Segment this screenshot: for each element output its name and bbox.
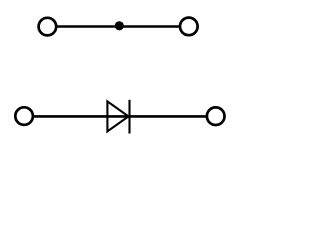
terminal circle (bottom right) bbox=[207, 107, 225, 125]
terminal circle (top left) bbox=[39, 18, 57, 36]
wire (bottom conductor) bbox=[34, 115, 207, 118]
terminal circle (top right) bbox=[180, 18, 198, 36]
wire (top conductor) bbox=[57, 25, 179, 28]
diode D1 triangle (anode) bbox=[107, 101, 128, 131]
node junction dot bbox=[115, 21, 124, 30]
terminal circle (bottom left) bbox=[15, 107, 33, 125]
diode D1 cathode bar bbox=[128, 100, 130, 134]
